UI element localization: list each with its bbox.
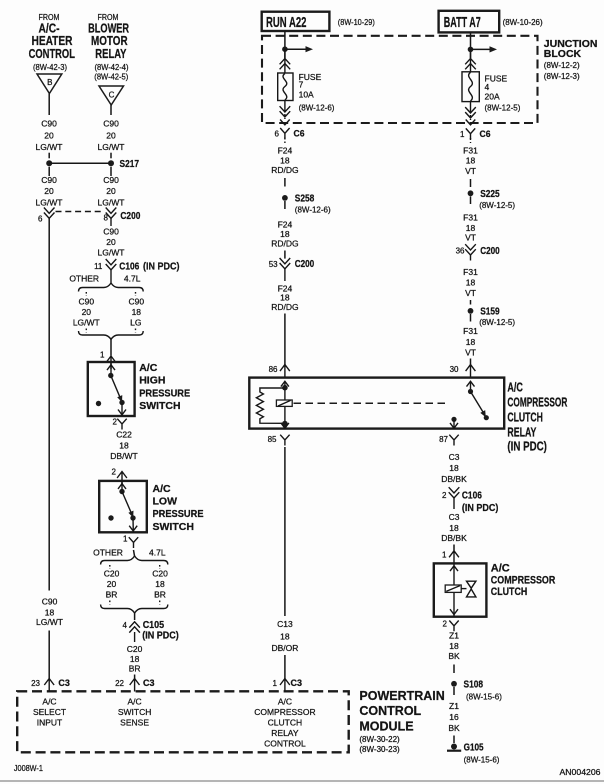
fuse 4 value label [485, 74, 521, 113]
svg-text:C90: C90 [103, 227, 119, 237]
svg-text:CLUTCH: CLUTCH [491, 586, 528, 598]
svg-text:18: 18 [466, 337, 476, 347]
svg-text:4: 4 [485, 82, 490, 92]
relay label [507, 379, 567, 453]
svg-text:(8W-12-5): (8W-12-5) [479, 318, 515, 327]
svg-text:18: 18 [45, 607, 55, 617]
svg-text:VT: VT [465, 348, 476, 358]
svg-text:LG/WT: LG/WT [36, 197, 63, 207]
wire [453, 736, 455, 744]
wire C90 label col B (2) [98, 175, 125, 207]
feed arrow (run) [285, 46, 313, 52]
wire col A to PCM pin 23 [48, 631, 50, 679]
svg-text:BR: BR [106, 590, 118, 600]
svg-text:C105: C105 [143, 620, 165, 631]
relay pin 30 [450, 365, 476, 378]
svg-text:CONTROL: CONTROL [29, 47, 76, 61]
svg-text:20: 20 [106, 186, 116, 196]
svg-text:87: 87 [439, 435, 448, 444]
clutch pin 2 [443, 620, 459, 632]
wire [110, 153, 112, 159]
svg-text:C200: C200 [480, 246, 500, 257]
wire [470, 179, 472, 187]
wire to relay pin 30 [470, 359, 472, 367]
branch stub dotted (right) [159, 565, 161, 569]
svg-text:B: B [47, 78, 52, 87]
svg-text:DB/BK: DB/BK [441, 533, 467, 543]
svg-text:20A: 20A [485, 92, 500, 102]
A/C low pressure switch box [99, 481, 147, 532]
PCM label a/c switch sense [118, 697, 152, 728]
svg-text:C90: C90 [103, 175, 119, 185]
wire C90 label branch 4.7L [129, 296, 145, 327]
svg-text:20: 20 [44, 186, 54, 196]
switch pin 1 (LP) [123, 535, 138, 548]
switch pin 1 (HP) [100, 351, 116, 370]
wire C20 label branch other [104, 569, 120, 600]
svg-text:SWITCH: SWITCH [153, 521, 194, 533]
svg-text:2: 2 [112, 467, 117, 476]
relay coil bottom junction dot [282, 421, 288, 427]
svg-text:23: 23 [31, 679, 40, 688]
svg-text:18: 18 [449, 523, 459, 533]
connector C106 pin 11 [94, 259, 179, 283]
svg-text:4: 4 [123, 621, 128, 630]
svg-text:F31: F31 [463, 326, 478, 336]
svg-text:OTHER: OTHER [69, 274, 99, 284]
wire C13 label [271, 619, 298, 653]
svg-text:1: 1 [442, 551, 447, 560]
wire C90 label col A (2) [36, 175, 63, 207]
wire [470, 300, 472, 305]
svg-text:A/C: A/C [278, 697, 292, 707]
svg-text:(8W-12-3): (8W-12-3) [544, 72, 580, 81]
svg-text:A/C: A/C [42, 697, 56, 707]
svg-text:COMPRESSOR: COMPRESSOR [491, 574, 556, 586]
junction node dot (run) [282, 46, 288, 52]
fuse 7 [278, 73, 293, 101]
feed arrow (batt) [471, 46, 498, 52]
svg-text:20: 20 [106, 237, 116, 247]
relay coil top junction dot [282, 385, 288, 391]
svg-text:RUN A22: RUN A22 [266, 14, 307, 31]
relay internal wire 30 [470, 381, 472, 391]
clutch internals [445, 563, 476, 616]
svg-text:(8W-42-4): (8W-42-4) [95, 63, 129, 72]
svg-text:MODULE: MODULE [359, 719, 413, 733]
connector C200 pin 53 [269, 251, 315, 282]
svg-text:BK: BK [448, 651, 460, 661]
wire F31 label (1) [463, 146, 478, 177]
svg-text:18: 18 [280, 229, 290, 239]
junction block dashed box [262, 36, 538, 123]
svg-text:BK: BK [448, 723, 460, 733]
svg-text:(8W-12-5): (8W-12-5) [479, 201, 515, 210]
svg-text:SWITCH: SWITCH [139, 400, 180, 412]
svg-text:1: 1 [460, 130, 465, 139]
relay contact 30 dot [468, 389, 473, 394]
svg-text:C20: C20 [152, 569, 168, 579]
connector triangle C [99, 86, 124, 105]
svg-text:(8W-12-6): (8W-12-6) [299, 104, 335, 113]
branch stub dotted (left lower) [85, 329, 87, 333]
svg-text:RELAY: RELAY [271, 728, 299, 738]
svg-text:30: 30 [450, 365, 459, 374]
svg-text:(8W-30-22): (8W-30-22) [359, 735, 400, 744]
branch stub dotted (right) [135, 292, 137, 296]
svg-text:C: C [109, 91, 115, 100]
wire [453, 665, 455, 674]
relay contact 87 dot [451, 417, 456, 422]
wire relay 85 to PCM [284, 447, 286, 616]
wire to PCM pin 1 [284, 655, 286, 679]
svg-text:S258: S258 [295, 193, 315, 204]
wire F24 label (upper) [271, 146, 298, 176]
wire Z1 label (18ga) [448, 630, 460, 661]
svg-text:RD/DG: RD/DG [271, 239, 298, 249]
PCM label a/c compressor clutch relay control [254, 697, 315, 749]
wire F31 label (3) [463, 267, 478, 298]
wire F31 label (4) [463, 326, 478, 358]
svg-text:F31: F31 [463, 267, 478, 277]
svg-text:C200: C200 [120, 211, 140, 222]
fuse 4 [462, 72, 479, 102]
svg-text:18: 18 [132, 307, 142, 317]
node RUN A22 feed box [262, 12, 330, 31]
svg-text:C22: C22 [116, 429, 132, 439]
svg-text:18: 18 [449, 463, 459, 473]
svg-text:18: 18 [449, 641, 459, 651]
svg-text:LG/WT: LG/WT [98, 142, 125, 152]
svg-text:Z1: Z1 [449, 630, 459, 640]
connector chevrons above fuse 4 [465, 49, 476, 71]
svg-text:BR: BR [129, 664, 141, 674]
svg-text:(8W-30-23): (8W-30-23) [359, 745, 400, 754]
svg-text:20: 20 [82, 307, 92, 317]
A/C high pressure switch label [139, 362, 190, 412]
svg-text:(IN PDC): (IN PDC) [142, 631, 179, 642]
relay contact blade [471, 392, 489, 421]
svg-text:C20: C20 [104, 569, 120, 579]
PCM pin 1 [273, 678, 302, 692]
svg-text:C6: C6 [294, 129, 305, 140]
relay contact 30 entry arrow [467, 381, 475, 386]
ground G105 [447, 743, 500, 765]
svg-text:F31: F31 [463, 146, 478, 156]
svg-text:1: 1 [100, 351, 105, 360]
svg-text:7: 7 [299, 80, 304, 90]
splice S258 [282, 193, 331, 214]
svg-text:(8W-42-3): (8W-42-3) [33, 63, 67, 72]
wire F31 label (2) [463, 213, 478, 243]
A/C high pressure switch box [88, 362, 135, 416]
wire to relay pin 86 [284, 314, 286, 367]
svg-text:C90: C90 [41, 119, 57, 129]
wire [284, 178, 286, 187]
wire C3 label (lower) [441, 512, 467, 551]
connector C105 pin 4 [123, 620, 179, 642]
connector C200 pin 8 [104, 208, 141, 227]
svg-text:C90: C90 [42, 597, 58, 607]
svg-text:86: 86 [269, 365, 278, 374]
svg-text:(8W-10-26): (8W-10-26) [503, 18, 543, 27]
relay pin 85 terminal [268, 435, 290, 446]
svg-text:2: 2 [113, 418, 118, 427]
svg-text:A/C: A/C [153, 483, 172, 495]
wire C90 label branch other [73, 296, 100, 327]
svg-text:18: 18 [466, 277, 476, 287]
svg-text:F31: F31 [463, 213, 478, 223]
svg-text:COMPRESSOR: COMPRESSOR [254, 707, 315, 717]
svg-text:(8W-12-6): (8W-12-6) [295, 206, 331, 215]
wire C90 label col B (3) [98, 227, 125, 258]
split brace bottom (split 2) [101, 605, 168, 614]
svg-text:11: 11 [94, 262, 103, 271]
svg-text:S159: S159 [480, 306, 500, 317]
split brace top (split 2) [101, 556, 168, 565]
svg-text:C90: C90 [103, 119, 119, 129]
svg-text:(8W-12-2): (8W-12-2) [544, 61, 580, 70]
svg-text:A/C: A/C [491, 562, 510, 574]
svg-text:RD/DG: RD/DG [271, 165, 298, 175]
svg-text:SENSE: SENSE [120, 718, 149, 728]
svg-text:1: 1 [123, 535, 128, 544]
svg-text:LG/WT: LG/WT [36, 617, 63, 627]
branch stub dotted (right lower) [159, 601, 161, 605]
svg-text:S108: S108 [464, 680, 484, 691]
svg-text:18: 18 [119, 440, 129, 450]
splice S159 [468, 306, 516, 327]
svg-text:SELECT: SELECT [33, 707, 66, 717]
svg-text:(8W-42-5): (8W-42-5) [94, 73, 128, 82]
splice S108 [451, 680, 502, 702]
PCM pin 23 [31, 678, 70, 692]
branch stub dotted (left lower) [109, 601, 111, 605]
relay coil wire entry arrow [281, 381, 289, 386]
svg-text:PRESSURE: PRESSURE [139, 387, 190, 399]
branch stub dotted (right lower) [135, 329, 137, 333]
svg-text:DB/OR: DB/OR [271, 643, 298, 653]
svg-text:C3: C3 [291, 678, 303, 689]
svg-text:85: 85 [268, 435, 277, 444]
wire F24 label (third) [271, 283, 298, 312]
wire F24 label (lower) [271, 220, 298, 249]
svg-text:VT: VT [465, 288, 476, 298]
svg-text:2: 2 [443, 620, 448, 629]
svg-text:C3: C3 [449, 512, 460, 522]
svg-text:C3: C3 [143, 678, 155, 689]
svg-text:HIGH: HIGH [139, 375, 165, 387]
svg-text:F24: F24 [278, 146, 293, 156]
svg-text:C90: C90 [41, 175, 57, 185]
wire C20 label branch 4.7L [152, 569, 168, 600]
svg-text:22: 22 [115, 679, 124, 688]
svg-text:16: 16 [449, 712, 459, 722]
connector C6 pin 1 [460, 128, 490, 143]
relay pin 87 terminal [439, 435, 459, 446]
svg-text:G105: G105 [464, 743, 484, 754]
svg-text:COMPRESSOR: COMPRESSOR [507, 394, 567, 409]
relay internal wire 87 [453, 419, 455, 428]
svg-text:C13: C13 [277, 619, 293, 629]
svg-text:18: 18 [130, 654, 140, 664]
svg-text:C90: C90 [79, 296, 95, 306]
svg-text:18: 18 [466, 156, 476, 166]
wire out of split 2 [134, 613, 136, 620]
split brace top (split 1) [79, 283, 144, 292]
branch stub dotted (left) [109, 565, 111, 569]
connector C200 pin 36 [456, 244, 500, 260]
svg-text:(8W-12-5): (8W-12-5) [485, 104, 521, 113]
split brace bottom (split 1) [79, 331, 144, 339]
svg-text:20: 20 [107, 579, 117, 589]
connector chevrons above fuse 7 [280, 49, 291, 73]
wire to HP switch [110, 339, 112, 355]
svg-text:MOTOR: MOTOR [91, 34, 128, 48]
svg-text:C20: C20 [127, 644, 143, 654]
svg-text:OTHER: OTHER [93, 548, 123, 558]
A/C low pressure switch label [153, 483, 204, 533]
svg-text:6: 6 [38, 214, 43, 223]
wire C90 label col B (1) [98, 119, 125, 152]
svg-text:DB/WT: DB/WT [110, 451, 137, 461]
PCM powertrain control module dashed box [17, 691, 349, 752]
wire to PCM pin 22 [134, 675, 136, 679]
svg-text:53: 53 [269, 260, 278, 269]
svg-text:20: 20 [44, 131, 54, 141]
node BATT A7 feed box [439, 11, 500, 33]
svg-text:18: 18 [280, 292, 290, 302]
svg-text:VT: VT [465, 233, 476, 243]
svg-text:RD/DG: RD/DG [271, 302, 298, 312]
wire col A label C90 (bottom) [36, 597, 63, 628]
svg-text:36: 36 [456, 246, 465, 255]
svg-text:C3: C3 [58, 678, 70, 689]
svg-text:DB/BK: DB/BK [441, 474, 467, 484]
svg-text:VT: VT [465, 166, 476, 176]
relay U1 A/C compressor clutch relay box [249, 378, 504, 429]
A/C compressor clutch box [434, 563, 487, 616]
svg-text:F24: F24 [278, 220, 293, 230]
svg-text:10A: 10A [299, 89, 314, 99]
svg-text:(IN PDC): (IN PDC) [507, 439, 547, 454]
wire triangle C down [110, 105, 112, 115]
svg-text:A/C: A/C [128, 697, 142, 707]
splice S225 [468, 189, 516, 210]
connector C106 pin 2 [442, 487, 498, 514]
svg-text:PRESSURE: PRESSURE [153, 508, 204, 520]
svg-text:(IN PDC): (IN PDC) [462, 503, 499, 514]
svg-text:A/C: A/C [507, 379, 523, 394]
svg-text:(8W-15-6): (8W-15-6) [464, 755, 500, 764]
svg-text:INPUT: INPUT [37, 718, 63, 728]
svg-text:18: 18 [155, 579, 165, 589]
PCM label a/c select input [33, 697, 66, 728]
clutch pin 1 [442, 551, 459, 564]
svg-text:(IN PDC): (IN PDC) [143, 261, 180, 272]
svg-text:Z1: Z1 [449, 701, 459, 711]
wire C22 label [110, 429, 137, 461]
switch pin 2 (LP) [112, 467, 127, 484]
svg-text:J008W-1: J008W-1 [14, 764, 43, 773]
wire C3 label (upper) [441, 452, 467, 484]
wire stubs below S217 [49, 167, 111, 176]
svg-text:CONTROL: CONTROL [264, 739, 306, 749]
svg-text:POWERTRAIN: POWERTRAIN [359, 689, 444, 703]
PCM name label [359, 689, 444, 754]
svg-text:(8W-15-6): (8W-15-6) [466, 693, 502, 702]
svg-text:A/C: A/C [139, 362, 158, 374]
PCM pin 22 [115, 678, 154, 692]
svg-text:CLUTCH: CLUTCH [507, 409, 543, 424]
svg-text:LG/WT: LG/WT [73, 317, 100, 327]
svg-text:RELAY: RELAY [507, 424, 536, 439]
svg-text:LG/WT: LG/WT [36, 142, 63, 152]
relay resistor [256, 388, 285, 423]
relay coil box [276, 400, 292, 406]
svg-text:20: 20 [106, 131, 116, 141]
wire col A long run [48, 218, 50, 590]
connector triangle B [37, 74, 62, 94]
svg-text:C200: C200 [295, 259, 315, 270]
relay pin 86 [269, 365, 290, 378]
svg-text:LG/WT: LG/WT [98, 197, 125, 207]
splice S217 [46, 159, 139, 170]
svg-text:18: 18 [280, 156, 290, 166]
svg-text:RELAY: RELAY [95, 47, 127, 61]
wire Z1 label (16ga) [448, 701, 460, 733]
wire C20 label (below C105) [127, 644, 143, 674]
junction block label [544, 38, 598, 81]
relay internal wire 86 to 85 [284, 381, 286, 428]
svg-text:C3: C3 [449, 452, 460, 462]
svg-text:LG: LG [130, 317, 141, 327]
header FROM BLOWER MOTOR RELAY [88, 13, 129, 82]
svg-text:S225: S225 [480, 189, 500, 200]
bottom rule [0, 780, 604, 782]
svg-text:6: 6 [275, 130, 280, 139]
wire RUN A22 to fuse 7 [284, 31, 286, 58]
connector chevrons below fuse 7 [280, 101, 291, 125]
wire triangle B down [48, 94, 50, 116]
connector C200 pin 6 [38, 208, 54, 224]
svg-text:BR: BR [154, 590, 166, 600]
svg-text:18: 18 [466, 223, 476, 233]
svg-text:2: 2 [442, 491, 447, 500]
svg-text:4.7L: 4.7L [149, 548, 166, 558]
svg-text:C6: C6 [480, 129, 491, 140]
svg-text:LG/WT: LG/WT [98, 248, 125, 258]
svg-text:(8W-10-29): (8W-10-29) [338, 18, 375, 27]
connector C200 dashed boundary [56, 211, 102, 213]
svg-text:SWITCH: SWITCH [118, 707, 152, 717]
header FROM A/C-HEATER CONTROL [29, 13, 76, 72]
connector C6 pin 6 [275, 128, 305, 143]
svg-text:S217: S217 [120, 159, 140, 170]
fuse 7 value label [299, 72, 335, 113]
connector chevrons below fuse 4 [465, 102, 476, 125]
svg-text:BLOCK: BLOCK [544, 48, 582, 60]
svg-text:CONTROL: CONTROL [359, 704, 421, 718]
svg-text:C106: C106 [462, 491, 482, 502]
LP switch internals [108, 481, 137, 532]
svg-text:BATT A7: BATT A7 [444, 14, 481, 31]
svg-text:8: 8 [104, 213, 109, 222]
svg-text:C106: C106 [119, 261, 139, 272]
A/C compressor clutch label [491, 562, 556, 598]
wire C90 label col A (1) [36, 119, 63, 152]
svg-text:1: 1 [273, 679, 278, 688]
